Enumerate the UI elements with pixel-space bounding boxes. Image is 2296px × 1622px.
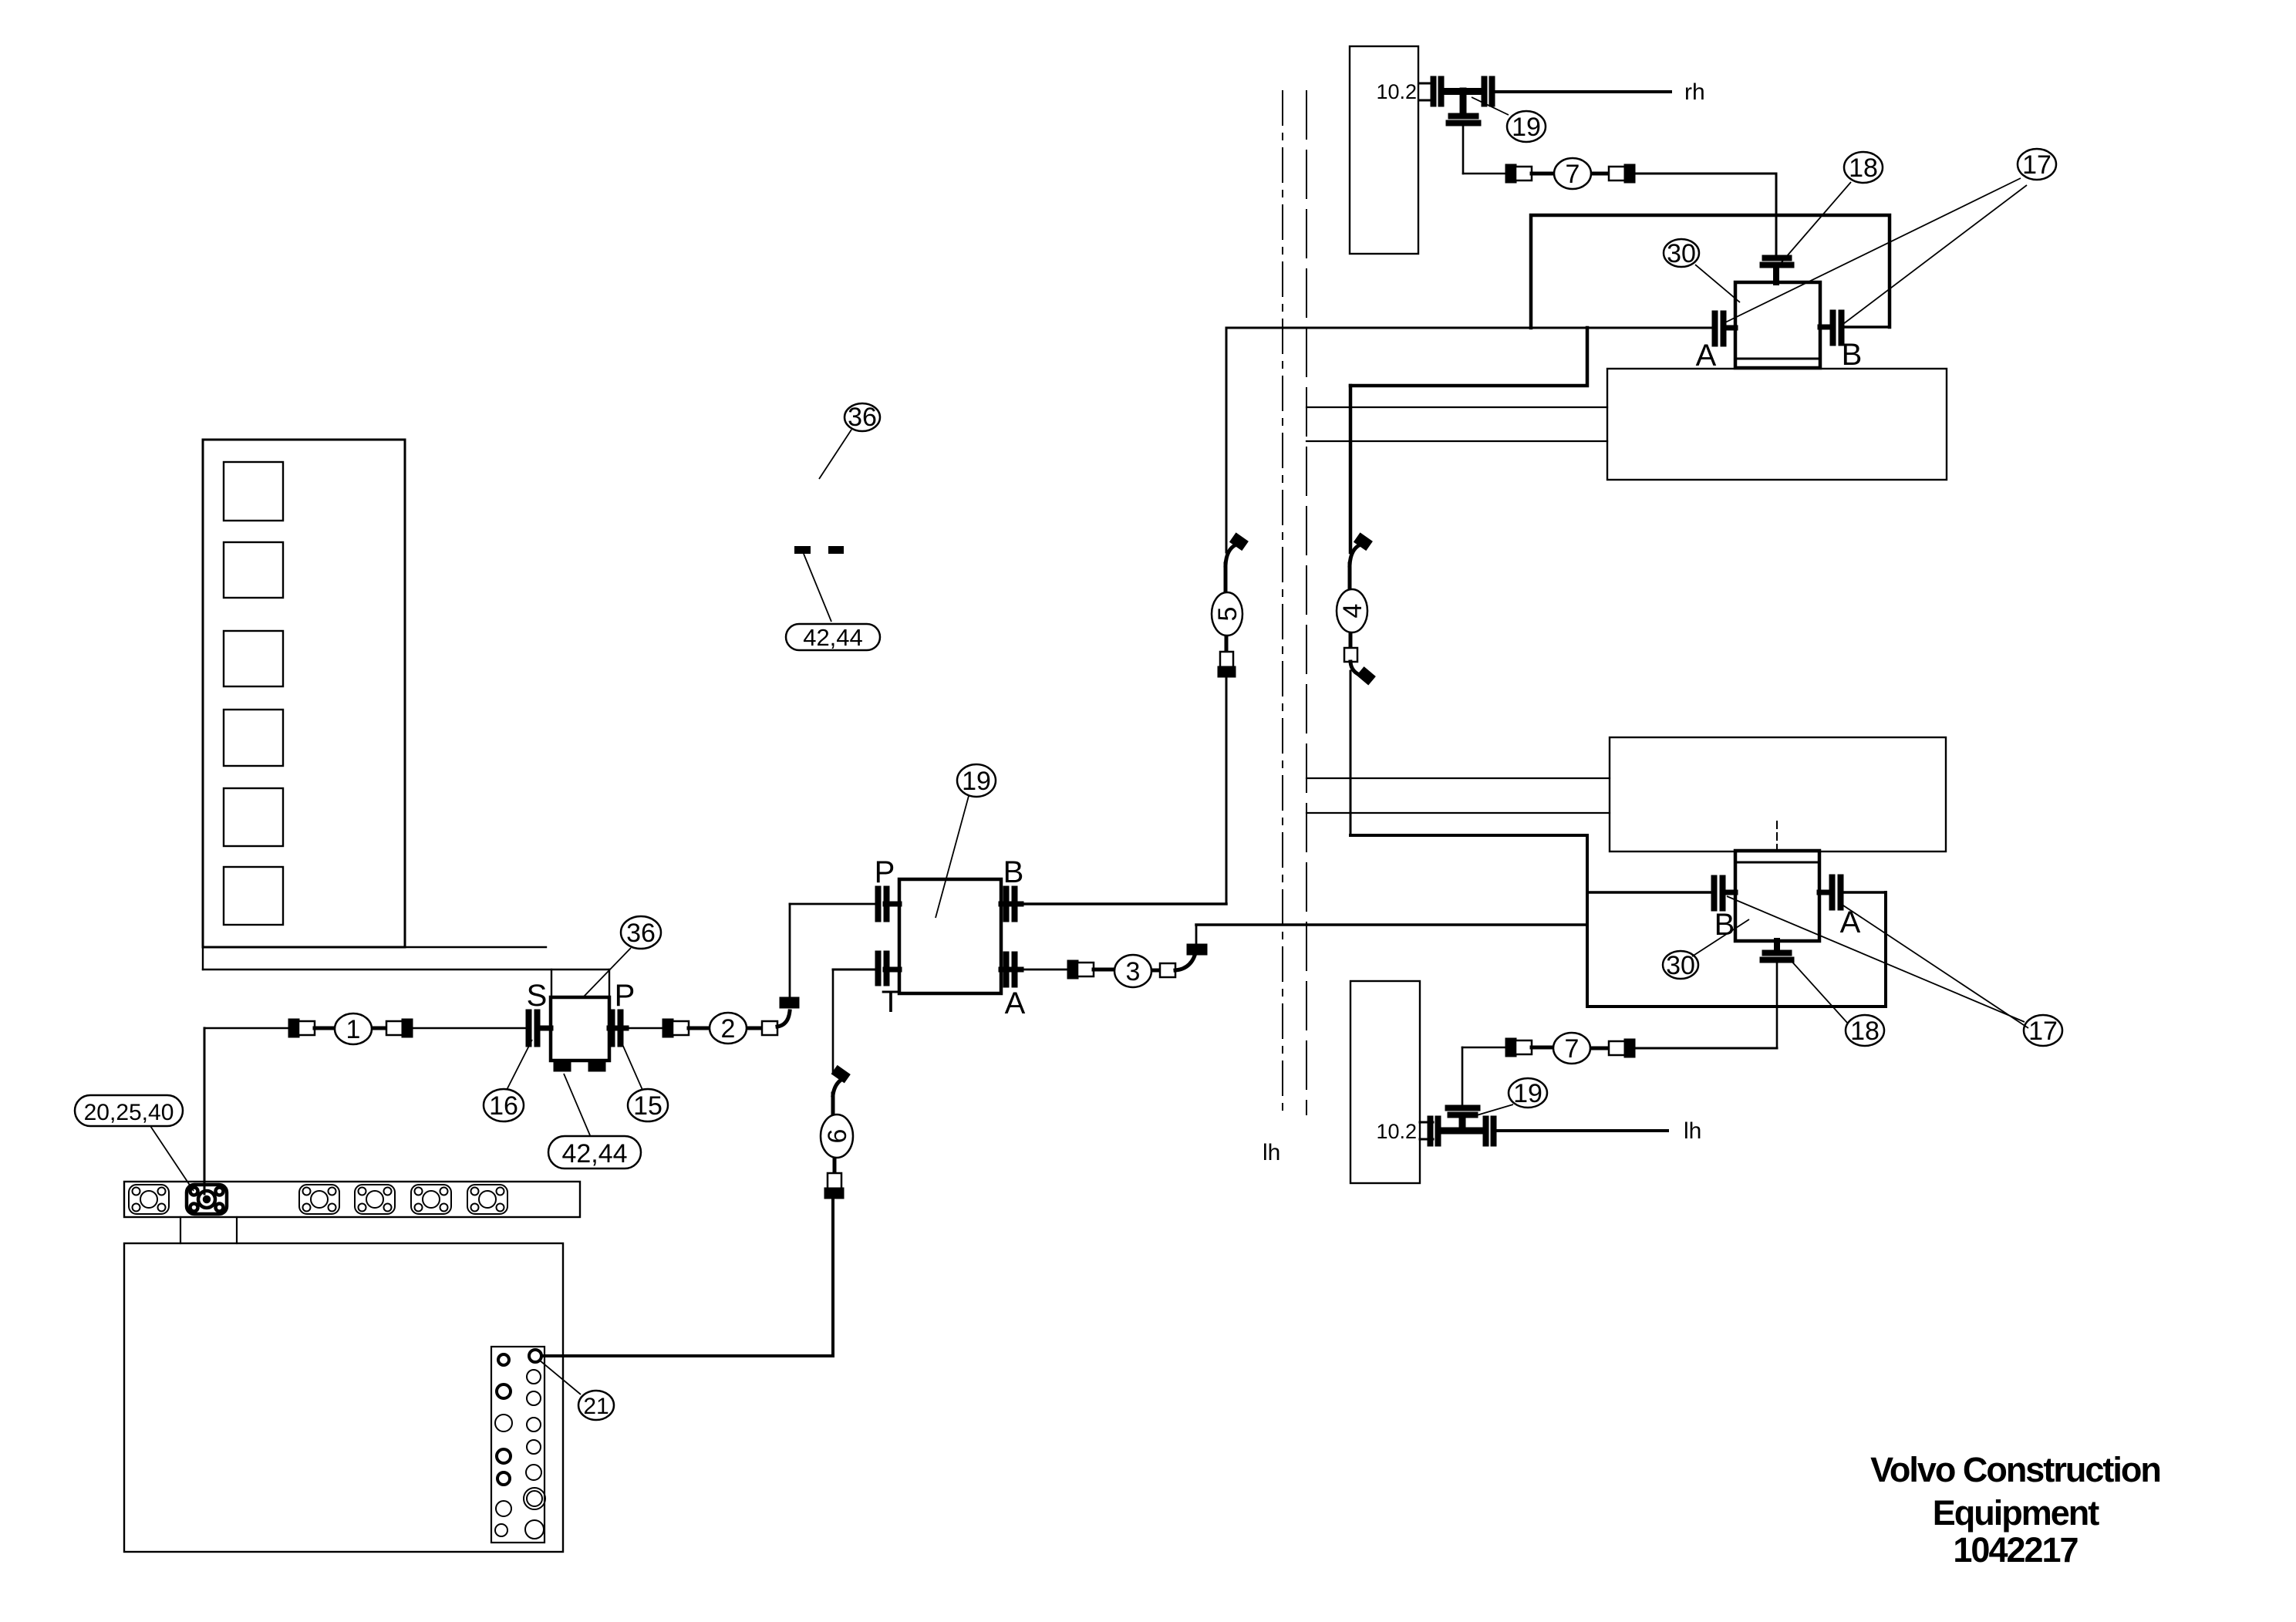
svg-text:18: 18	[1850, 1017, 1880, 1046]
svg-text:20,25,40: 20,25,40	[84, 1100, 174, 1125]
svg-text:A: A	[1696, 339, 1717, 373]
svg-text:1042217: 1042217	[1953, 1530, 2078, 1570]
svg-text:lh: lh	[1684, 1118, 1701, 1144]
svg-text:P: P	[615, 979, 636, 1013]
svg-text:19: 19	[1513, 1079, 1542, 1108]
svg-text:19: 19	[962, 767, 991, 796]
svg-text:B: B	[1714, 908, 1735, 942]
svg-text:Volvo Construction: Volvo Construction	[1870, 1450, 2160, 1489]
svg-text:1: 1	[346, 1015, 361, 1044]
svg-text:T: T	[882, 985, 900, 1019]
svg-text:3: 3	[1126, 957, 1141, 986]
svg-text:B: B	[1842, 338, 1863, 372]
svg-text:19: 19	[1512, 113, 1541, 142]
svg-text:7: 7	[1565, 1034, 1580, 1064]
svg-text:7: 7	[1566, 160, 1580, 189]
svg-text:18: 18	[1849, 153, 1878, 183]
svg-text:lh: lh	[1263, 1140, 1280, 1165]
svg-text:B: B	[1003, 855, 1024, 889]
svg-text:10.2: 10.2	[1376, 80, 1417, 103]
svg-text:30: 30	[1667, 239, 1696, 268]
svg-text:5: 5	[1213, 607, 1242, 622]
svg-text:16: 16	[489, 1091, 518, 1121]
svg-text:17: 17	[2022, 150, 2052, 180]
svg-text:42,44: 42,44	[561, 1139, 627, 1168]
svg-text:6: 6	[823, 1129, 852, 1144]
svg-text:21: 21	[583, 1394, 609, 1419]
svg-text:36: 36	[848, 403, 877, 432]
svg-text:36: 36	[626, 919, 656, 948]
svg-text:30: 30	[1666, 951, 1695, 980]
svg-text:S: S	[527, 979, 548, 1013]
svg-text:10.2: 10.2	[1376, 1120, 1417, 1143]
svg-text:Equipment: Equipment	[1933, 1493, 2100, 1533]
svg-text:P: P	[875, 855, 895, 889]
svg-text:rh: rh	[1684, 79, 1705, 105]
svg-text:A: A	[1840, 905, 1861, 939]
svg-text:42,44: 42,44	[803, 624, 863, 651]
svg-text:4: 4	[1338, 604, 1367, 619]
svg-text:A: A	[1005, 986, 1026, 1020]
svg-text:15: 15	[633, 1091, 663, 1121]
svg-text:17: 17	[2028, 1017, 2058, 1046]
svg-text:2: 2	[721, 1014, 736, 1044]
